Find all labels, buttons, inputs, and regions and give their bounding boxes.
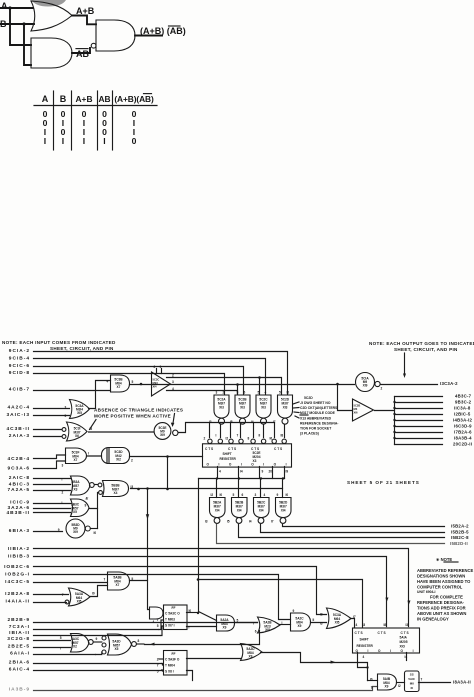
svg-text:SHEET, CIRCUIT, AND PIN: SHEET, CIRCUIT, AND PIN bbox=[394, 347, 458, 352]
svg-text:2B2E-5: 2B2E-5 bbox=[8, 644, 30, 650]
svg-text:I7: I7 bbox=[271, 520, 274, 524]
svg-text:7: 7 bbox=[253, 622, 255, 626]
svg-text:X9: X9 bbox=[249, 655, 253, 659]
svg-text:X4: X4 bbox=[114, 491, 118, 495]
svg-text:I0: I0 bbox=[370, 678, 373, 682]
svg-text:4C3B-II: 4C3B-II bbox=[6, 426, 30, 432]
svg-text:DESIGNATIONS SHOWN: DESIGNATIONS SHOWN bbox=[417, 574, 465, 579]
svg-text:9: 9 bbox=[96, 637, 98, 641]
svg-text:I4: I4 bbox=[249, 520, 252, 524]
svg-text:-5 DWG SHEET NO: -5 DWG SHEET NO bbox=[300, 401, 331, 405]
svg-text:I: I bbox=[103, 136, 105, 146]
svg-text:ICIC-9: ICIC-9 bbox=[10, 500, 30, 506]
svg-text:FF: FF bbox=[172, 652, 176, 656]
svg-text:4B3B-II: 4B3B-II bbox=[6, 510, 30, 516]
svg-text:5: 5 bbox=[237, 619, 239, 623]
svg-text:X7: X7 bbox=[117, 385, 121, 389]
svg-text:I4: I4 bbox=[405, 655, 408, 659]
svg-text:9CID-8: 9CID-8 bbox=[9, 370, 30, 376]
svg-text:I3: I3 bbox=[131, 485, 134, 489]
svg-text:X9: X9 bbox=[223, 626, 227, 630]
svg-text:I0: I0 bbox=[189, 609, 192, 613]
svg-text:I5B2D-II: I5B2D-II bbox=[450, 541, 468, 546]
svg-text:I5B2B-5: I5B2B-5 bbox=[451, 530, 469, 535]
svg-text:4BIC-3: 4BIC-3 bbox=[9, 482, 30, 488]
svg-text:I4: I4 bbox=[240, 470, 243, 474]
svg-text:C 5A3C O: C 5A3C O bbox=[165, 612, 180, 616]
svg-text:XI4: XI4 bbox=[281, 509, 286, 513]
svg-text:SHIFT: SHIFT bbox=[223, 452, 232, 456]
svg-text:A: A bbox=[1, 1, 8, 11]
svg-text:2: 2 bbox=[131, 459, 133, 463]
svg-text:2: 2 bbox=[62, 491, 64, 495]
svg-text:I4C3C-5: I4C3C-5 bbox=[5, 579, 30, 585]
svg-text:I: I bbox=[62, 136, 64, 146]
svg-text:(A+B) (AB): (A+B) (AB) bbox=[140, 26, 186, 36]
svg-text:9: 9 bbox=[262, 470, 264, 474]
svg-text:XI5: XI5 bbox=[77, 411, 82, 415]
svg-text:I5B2C-8: I5B2C-8 bbox=[451, 535, 469, 540]
svg-text:HAVE BEEN ASSIGNED TO: HAVE BEEN ASSIGNED TO bbox=[417, 579, 471, 584]
svg-text:7: 7 bbox=[157, 664, 159, 668]
svg-text:I2: I2 bbox=[211, 493, 214, 497]
svg-text:✳ NOTE: ✳ NOTE bbox=[436, 557, 452, 562]
svg-text:X9: X9 bbox=[385, 685, 389, 689]
svg-text:6AIC-4: 6AIC-4 bbox=[9, 667, 30, 673]
svg-text:FOR COMPLETE: FOR COMPLETE bbox=[430, 595, 463, 600]
svg-text:5C2B: 5C2B bbox=[354, 404, 361, 408]
svg-text:I: I bbox=[62, 478, 63, 482]
svg-text:I2B2A-8: I2B2A-8 bbox=[5, 591, 30, 597]
svg-text:4C2B-4: 4C2B-4 bbox=[7, 456, 30, 462]
svg-text:I6C3D-9: I6C3D-9 bbox=[454, 424, 472, 429]
svg-text:II: II bbox=[313, 618, 315, 622]
svg-text:5AIA: 5AIA bbox=[400, 636, 408, 640]
svg-text:X2: X2 bbox=[73, 645, 77, 649]
svg-text:X13 ABBREVIATED: X13 ABBREVIATED bbox=[300, 417, 332, 421]
svg-text:2BIA-6: 2BIA-6 bbox=[9, 660, 30, 666]
svg-text:XI9: XI9 bbox=[363, 384, 368, 388]
svg-text:X9: X9 bbox=[298, 624, 302, 628]
svg-text:XI4: XI4 bbox=[215, 509, 220, 513]
svg-text:I3: I3 bbox=[406, 623, 409, 627]
svg-text:I: I bbox=[282, 621, 283, 625]
svg-text:4: 4 bbox=[172, 387, 174, 391]
svg-text:I7: I7 bbox=[353, 615, 356, 619]
svg-text:SHEET, CIRCUIT, AND PIN: SHEET, CIRCUIT, AND PIN bbox=[50, 346, 114, 351]
svg-text:2AIC-8: 2AIC-8 bbox=[9, 475, 30, 481]
svg-text:3: 3 bbox=[172, 380, 174, 384]
svg-text:NOTE: EACH OUTPUT GOES TO IND: NOTE: EACH OUTPUT GOES TO INDICATED bbox=[369, 341, 474, 346]
svg-text:7: 7 bbox=[237, 434, 239, 438]
svg-text:I4AIA-II: I4AIA-II bbox=[5, 599, 30, 605]
svg-text:XI3: XI3 bbox=[240, 406, 245, 410]
svg-text:TION FOR SOCKET: TION FOR SOCKET bbox=[300, 427, 332, 431]
svg-text:9: 9 bbox=[160, 365, 162, 369]
svg-text:2: 2 bbox=[223, 391, 225, 395]
svg-text:I8A3A-II: I8A3A-II bbox=[453, 680, 471, 685]
svg-text:6: 6 bbox=[242, 493, 244, 497]
svg-text:9: 9 bbox=[293, 609, 295, 613]
svg-text:MII: MII bbox=[410, 682, 414, 686]
svg-text:9: 9 bbox=[277, 493, 279, 497]
svg-text:I8A3B-4: I8A3B-4 bbox=[454, 436, 472, 441]
svg-text:IOB2C-6: IOB2C-6 bbox=[4, 564, 30, 570]
svg-text:4: 4 bbox=[363, 655, 365, 659]
svg-text:3AIC-I3: 3AIC-I3 bbox=[6, 412, 30, 418]
svg-text:UNIT 6904-I: UNIT 6904-I bbox=[417, 590, 436, 594]
svg-text:REFERENCE DESIGNA-: REFERENCE DESIGNA- bbox=[417, 600, 465, 605]
svg-text:5C3C: 5C3C bbox=[153, 378, 160, 382]
svg-text:AB: AB bbox=[98, 94, 110, 104]
svg-text:2: 2 bbox=[172, 374, 174, 378]
svg-text:REGISTER: REGISTER bbox=[220, 457, 237, 461]
svg-text:I0: I0 bbox=[92, 592, 95, 596]
svg-text:7C3A-I: 7C3A-I bbox=[9, 624, 30, 630]
svg-text:XI4: XI4 bbox=[237, 509, 242, 513]
svg-text:I3: I3 bbox=[320, 622, 323, 626]
svg-text:XI4: XI4 bbox=[259, 509, 264, 513]
svg-text:FF: FF bbox=[172, 606, 176, 610]
svg-text:T MI04: T MI04 bbox=[165, 663, 175, 667]
svg-text:I2: I2 bbox=[320, 613, 323, 617]
svg-text:7A2A-5: 7A2A-5 bbox=[7, 487, 30, 493]
svg-text:6BIA-3: 6BIA-3 bbox=[9, 528, 30, 534]
svg-text:4: 4 bbox=[356, 623, 358, 627]
svg-text:4: 4 bbox=[264, 493, 266, 497]
svg-text:I9: I9 bbox=[286, 470, 289, 474]
svg-text:S XI7 I: S XI7 I bbox=[165, 624, 175, 628]
svg-text:4A2C-4: 4A2C-4 bbox=[7, 405, 30, 411]
svg-text:I5: I5 bbox=[230, 420, 233, 424]
svg-text:7: 7 bbox=[62, 593, 64, 597]
svg-text:A+B: A+B bbox=[76, 6, 95, 16]
svg-text:X7: X7 bbox=[74, 458, 78, 462]
svg-text:I4B3A-I2: I4B3A-I2 bbox=[453, 418, 473, 423]
svg-text:XI4: XI4 bbox=[153, 385, 158, 389]
svg-text:XI6: XI6 bbox=[354, 411, 359, 415]
svg-text:C T S: C T S bbox=[378, 631, 386, 635]
svg-text:5: 5 bbox=[233, 493, 235, 497]
svg-text:I3: I3 bbox=[363, 623, 366, 627]
svg-text:IA3B-9: IA3B-9 bbox=[9, 687, 30, 693]
svg-text:O I O I O I O I: O I O I O I O I bbox=[207, 463, 287, 467]
svg-text:XI9: XI9 bbox=[160, 433, 165, 437]
svg-text:MORE POSITIVE WHEN ACTIVE: MORE POSITIVE WHEN ACTIVE bbox=[94, 414, 171, 419]
svg-text:I5: I5 bbox=[90, 427, 93, 431]
svg-text:9: 9 bbox=[371, 686, 373, 690]
svg-text:5AIC: 5AIC bbox=[408, 677, 415, 681]
svg-text:I5B2A-2: I5B2A-2 bbox=[451, 524, 469, 529]
svg-text:IBIA-II: IBIA-II bbox=[9, 630, 30, 636]
svg-text:9CIA-2: 9CIA-2 bbox=[9, 348, 30, 354]
svg-text:2AIA-3: 2AIA-3 bbox=[9, 433, 30, 439]
svg-text:XI3: XI3 bbox=[283, 406, 288, 410]
svg-text:M205: M205 bbox=[400, 640, 408, 644]
svg-text:XIO: XIO bbox=[400, 645, 406, 649]
svg-text:I: I bbox=[189, 626, 190, 630]
svg-text:C T S: C T S bbox=[205, 447, 213, 451]
svg-text:IIC3A-8: IIC3A-8 bbox=[454, 406, 471, 411]
svg-text:I: I bbox=[88, 452, 89, 456]
svg-text:I0: I0 bbox=[287, 391, 290, 395]
svg-text:I: I bbox=[216, 434, 217, 438]
svg-text:A+B: A+B bbox=[76, 94, 93, 104]
svg-text:REFERENCE DESIGNA-: REFERENCE DESIGNA- bbox=[300, 422, 338, 426]
svg-text:5: 5 bbox=[279, 391, 281, 395]
svg-text:5: 5 bbox=[60, 636, 62, 640]
svg-text:I3C3A-2: I3C3A-2 bbox=[440, 381, 458, 386]
svg-text:C T S: C T S bbox=[274, 447, 282, 451]
svg-text:I7B2A-6: I7B2A-6 bbox=[454, 430, 472, 435]
svg-text:C 5A3F O: C 5A3F O bbox=[165, 657, 180, 661]
svg-text:6: 6 bbox=[244, 391, 246, 395]
svg-text:5: 5 bbox=[258, 391, 260, 395]
svg-text:I8: I8 bbox=[281, 434, 284, 438]
svg-text:5: 5 bbox=[65, 414, 67, 418]
svg-text:I8: I8 bbox=[384, 623, 387, 627]
svg-text:3C2G-8: 3C2G-8 bbox=[7, 636, 30, 642]
svg-text:7: 7 bbox=[421, 678, 423, 682]
svg-text:X7: X7 bbox=[116, 583, 120, 587]
svg-text:A: A bbox=[42, 94, 49, 104]
svg-text:XI: XI bbox=[410, 686, 413, 690]
svg-text:XI3: XI3 bbox=[261, 406, 266, 410]
svg-text:ABSENCE OF TRIANGLE INDICATES: ABSENCE OF TRIANGLE INDICATES bbox=[94, 408, 183, 413]
svg-text:I: I bbox=[44, 136, 46, 146]
svg-text:X3: X3 bbox=[74, 488, 78, 492]
svg-text:C T S: C T S bbox=[228, 447, 236, 451]
svg-text:COMPUTER CONTROL: COMPUTER CONTROL bbox=[417, 585, 463, 590]
svg-text:4: 4 bbox=[107, 380, 109, 384]
svg-text:I6: I6 bbox=[270, 437, 273, 441]
svg-text:I2: I2 bbox=[398, 684, 401, 688]
svg-text:IIBIA-2: IIBIA-2 bbox=[8, 546, 30, 552]
svg-text:2: 2 bbox=[381, 387, 383, 391]
svg-text:XI2: XI2 bbox=[116, 458, 121, 462]
svg-text:2: 2 bbox=[204, 437, 206, 441]
svg-text:4CIB-7: 4CIB-7 bbox=[9, 387, 30, 393]
svg-text:I3: I3 bbox=[205, 520, 208, 524]
svg-text:I2: I2 bbox=[226, 437, 229, 441]
svg-text:9CIC-6: 9CIC-6 bbox=[9, 363, 30, 369]
svg-text:X6: X6 bbox=[75, 434, 79, 438]
svg-text:I2BIC-5: I2BIC-5 bbox=[454, 412, 471, 417]
svg-text:IOB2G-I: IOB2G-I bbox=[5, 572, 30, 578]
svg-text:20C2D-II: 20C2D-II bbox=[453, 442, 472, 447]
svg-text:M93: M93 bbox=[153, 381, 159, 385]
svg-text:9CIB-4: 9CIB-4 bbox=[9, 356, 30, 362]
svg-text:9B3C-2: 9B3C-2 bbox=[455, 400, 472, 405]
svg-text:XI8: XI8 bbox=[265, 628, 270, 632]
svg-text:8: 8 bbox=[138, 639, 140, 643]
svg-text:II: II bbox=[132, 577, 134, 581]
svg-text:5: 5 bbox=[157, 670, 159, 674]
svg-text:X5: X5 bbox=[115, 647, 119, 651]
svg-text:I3: I3 bbox=[209, 420, 212, 424]
svg-text:X5: X5 bbox=[73, 510, 77, 514]
svg-text:9: 9 bbox=[237, 391, 239, 395]
svg-text:M317 MODULE CODE: M317 MODULE CODE bbox=[300, 411, 336, 415]
svg-text:IN GENEALOGY: IN GENEALOGY bbox=[417, 617, 449, 622]
svg-text:(3 PLACES): (3 PLACES) bbox=[300, 432, 319, 436]
svg-text:7: 7 bbox=[60, 647, 62, 651]
svg-text:3: 3 bbox=[62, 464, 64, 468]
svg-text:ABOVE UNIT AS SHOWN: ABOVE UNIT AS SHOWN bbox=[417, 611, 466, 616]
svg-text:TIONS ADD PREFIX FOR: TIONS ADD PREFIX FOR bbox=[417, 606, 466, 611]
svg-text:4: 4 bbox=[153, 620, 155, 624]
svg-text:ABBREVIATED REFERENCE: ABBREVIATED REFERENCE bbox=[417, 568, 474, 573]
svg-text:AB: AB bbox=[76, 49, 89, 59]
svg-text:E: E bbox=[86, 496, 89, 501]
svg-text:9: 9 bbox=[85, 503, 87, 507]
svg-text:M3: M3 bbox=[354, 407, 358, 411]
svg-text:I0: I0 bbox=[94, 531, 97, 535]
svg-text:C T S: C T S bbox=[355, 631, 363, 635]
svg-text:0: 0 bbox=[132, 136, 137, 146]
svg-text:S X8 I: S X8 I bbox=[165, 669, 174, 673]
svg-text:I: I bbox=[83, 136, 85, 146]
svg-text:I4: I4 bbox=[251, 420, 254, 424]
svg-text:3: 3 bbox=[216, 391, 218, 395]
svg-text:2: 2 bbox=[157, 658, 159, 662]
svg-text:XI5: XI5 bbox=[335, 621, 340, 625]
svg-text:4: 4 bbox=[265, 391, 267, 395]
svg-text:4: 4 bbox=[219, 470, 221, 474]
svg-text:7: 7 bbox=[104, 578, 106, 582]
svg-text:20: 20 bbox=[269, 470, 273, 474]
svg-text:2: 2 bbox=[154, 365, 156, 369]
svg-text:5C2D: 5C2D bbox=[304, 396, 313, 400]
svg-text:XI9: XI9 bbox=[73, 530, 78, 534]
svg-text:IIBIB-3: IIBIB-3 bbox=[8, 554, 30, 560]
svg-text:SS: SS bbox=[410, 673, 414, 677]
svg-text:6: 6 bbox=[255, 630, 257, 634]
svg-text:REGISTER: REGISTER bbox=[357, 644, 374, 648]
svg-text:C T S: C T S bbox=[401, 631, 409, 635]
svg-text:B: B bbox=[60, 94, 67, 104]
svg-text:4B3C-7: 4B3C-7 bbox=[455, 394, 472, 399]
svg-text:8: 8 bbox=[248, 437, 250, 441]
svg-text:T MI03: T MI03 bbox=[165, 618, 175, 622]
svg-text:C2D CKT(AN)LETTERS: C2D CKT(AN)LETTERS bbox=[300, 406, 338, 410]
svg-text:5: 5 bbox=[157, 624, 159, 628]
svg-text:I5: I5 bbox=[227, 520, 230, 524]
svg-text:SHIFT: SHIFT bbox=[360, 638, 369, 642]
svg-text:(A+B)(AB): (A+B)(AB) bbox=[114, 94, 154, 104]
svg-text:I0: I0 bbox=[286, 493, 289, 497]
svg-text:I: I bbox=[62, 501, 63, 505]
svg-text:7: 7 bbox=[157, 618, 159, 622]
svg-text:3: 3 bbox=[255, 493, 257, 497]
svg-text:NOTE: EACH INPUT COMES FROM IN: NOTE: EACH INPUT COMES FROM INDICATED bbox=[2, 340, 116, 345]
svg-text:I7: I7 bbox=[273, 420, 276, 424]
svg-text:9C3A-6: 9C3A-6 bbox=[7, 466, 30, 472]
svg-text:XI5: XI5 bbox=[77, 600, 82, 604]
svg-text:XI3: XI3 bbox=[219, 406, 224, 410]
svg-text:II: II bbox=[259, 434, 261, 438]
svg-text:3: 3 bbox=[65, 406, 67, 410]
svg-text:6AIA-I: 6AIA-I bbox=[10, 651, 30, 657]
svg-text:5: 5 bbox=[132, 380, 134, 384]
svg-text:9: 9 bbox=[58, 528, 60, 532]
svg-text:I0: I0 bbox=[220, 493, 223, 497]
svg-text:2B2B-9: 2B2B-9 bbox=[7, 617, 30, 623]
svg-text:SHEET 5 OF 21 SHEETS: SHEET 5 OF 21 SHEETS bbox=[347, 480, 420, 485]
